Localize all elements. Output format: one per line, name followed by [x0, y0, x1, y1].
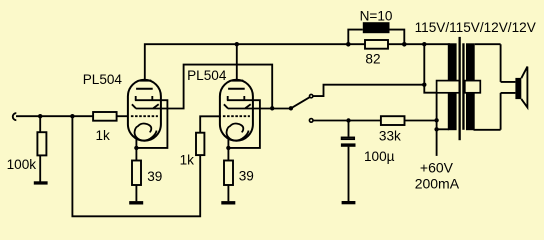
svg-text:39: 39 [239, 169, 254, 184]
svg-text:82: 82 [365, 51, 380, 66]
svg-text:1k: 1k [96, 128, 111, 143]
svg-text:100k: 100k [7, 157, 37, 172]
svg-text:+60V: +60V [420, 160, 454, 176]
svg-text:39: 39 [147, 169, 162, 184]
svg-text:200mA: 200mA [415, 176, 460, 192]
svg-text:N=10: N=10 [360, 9, 393, 24]
svg-text:100µ: 100µ [364, 149, 395, 164]
svg-text:115V/115V/12V/12V: 115V/115V/12V/12V [415, 20, 536, 35]
svg-text:1k: 1k [180, 153, 195, 168]
svg-text:PL504: PL504 [83, 72, 123, 87]
svg-text:33k: 33k [379, 128, 401, 143]
svg-text:PL504: PL504 [187, 68, 227, 83]
